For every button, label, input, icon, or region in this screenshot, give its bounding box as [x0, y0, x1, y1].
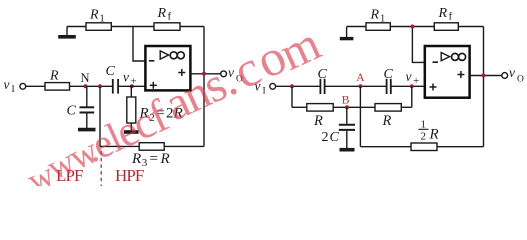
output junction dot (right) [482, 74, 486, 78]
label v+ [123, 70, 137, 88]
svg-text:=: = [150, 151, 158, 167]
svg-text:f: f [449, 11, 453, 23]
svg-text:N: N [81, 71, 90, 85]
resistor half-R [411, 143, 437, 151]
svg-text:R: R [49, 69, 59, 84]
svg-text:+: + [413, 75, 419, 87]
resistor R1 [86, 23, 111, 31]
svg-text:1: 1 [380, 14, 385, 25]
svg-text:I: I [12, 85, 15, 95]
label R1 [89, 8, 105, 25]
ground (top, right circuit) [340, 27, 354, 39]
op-amp U1 plus (output side) [178, 69, 185, 76]
label v+ (right) [406, 69, 420, 87]
label 1/2 R [419, 119, 439, 143]
svg-text:R: R [313, 113, 323, 129]
ground (top left, R1) [58, 27, 76, 37]
label vO (right circuit) [509, 65, 524, 85]
op-amp U2 triangle [441, 53, 449, 61]
capacitor 2C stem upper [346, 107, 348, 124]
junction dot (R1/Rf right) [410, 25, 414, 29]
wire right vertical (feedback column) [203, 27, 205, 147]
svg-text:C: C [330, 130, 340, 145]
label Rf (right) [438, 6, 453, 23]
wire C2 to op-amp [391, 85, 424, 87]
op-amp U2 box [425, 46, 470, 98]
wire R to series C [70, 85, 113, 87]
resistor R1 (right) [366, 23, 390, 31]
wire R1 to Rf [111, 26, 154, 28]
label R2=2R [139, 106, 183, 125]
wire feedback left vertical [99, 86, 101, 146]
svg-text:C: C [384, 67, 394, 82]
svg-text:v: v [406, 69, 412, 84]
svg-text:R: R [370, 8, 380, 23]
node A dot [358, 84, 362, 88]
svg-text:1: 1 [100, 14, 105, 25]
node junction dot (feedback tap) [98, 84, 102, 88]
svg-text:R: R [429, 127, 439, 143]
svg-text:R: R [89, 8, 99, 23]
wire input to R [26, 85, 45, 87]
svg-text:O: O [517, 75, 524, 85]
svg-text:B: B [342, 95, 350, 107]
node B dot [345, 105, 349, 109]
wire op-amp output (right) [470, 75, 502, 77]
resistor R2 (shunt 2R) [127, 97, 136, 123]
resistor Rf [154, 23, 180, 31]
svg-text:C: C [106, 64, 116, 79]
dashed divider LPF/HPF [100, 151, 102, 186]
wire op-amp output [190, 73, 220, 75]
capacitor 2C stem lower [346, 131, 348, 148]
wire series C to op-amp + input [118, 85, 144, 87]
label vI (left input) [4, 77, 15, 95]
wire bottom (feedback) [100, 145, 204, 147]
label vO (left circuit) [228, 65, 243, 85]
svg-text:v: v [509, 65, 515, 80]
node v+ dot (right) [410, 84, 414, 88]
wire C1 to C2 [325, 85, 387, 87]
op-amp U2 plus (output side) [457, 71, 464, 78]
op-amp U2 infinity [452, 53, 466, 60]
wire bottom left segment (right circuit) [360, 146, 411, 148]
capacitor C2 plates [387, 79, 391, 94]
output terminal (left circuit) [221, 71, 227, 77]
wire rail rise to v+ [411, 86, 413, 107]
svg-text:1: 1 [421, 119, 427, 131]
wire right vertical (right circuit) [483, 27, 485, 147]
capacitor C shunt stem lower [86, 114, 88, 129]
wire Rf to right vertical [180, 26, 204, 28]
wire rail right segment [401, 106, 412, 108]
op-amp U1 box [145, 46, 190, 90]
svg-text:R: R [157, 6, 167, 21]
node N junction dot [84, 84, 88, 88]
svg-text:2: 2 [421, 131, 427, 143]
resistor R2 stem lower [130, 123, 132, 130]
output junction dot [202, 72, 206, 76]
op-amp U1 triangle [160, 51, 168, 59]
label 2C [322, 130, 340, 145]
input terminal (left) [20, 83, 26, 89]
capacitor C series plates [113, 79, 118, 94]
label R3=R [131, 151, 170, 169]
label R1 (right) [370, 8, 386, 25]
label Rf [157, 6, 172, 23]
node v+ junction dot [130, 84, 134, 88]
resistor R (rail right) [375, 104, 401, 112]
wire rail drop from input junction [291, 86, 293, 107]
svg-text:v: v [4, 77, 10, 92]
output terminal (right circuit) [502, 73, 508, 79]
wire input to C1 [276, 85, 320, 87]
wire Rf to right vertical (right) [458, 26, 483, 28]
op-amp U2 plus (input side) [430, 84, 437, 91]
wire ground to R1 [67, 26, 86, 28]
ground (under shunt C) [78, 128, 96, 132]
input terminal (right circuit) [270, 83, 276, 89]
svg-text:R: R [160, 151, 170, 167]
op-amp U1 infinity [170, 52, 184, 59]
wire A vertical drop [359, 86, 361, 146]
wire ground to R1 (right) [347, 26, 366, 28]
resistor Rf (right) [434, 23, 458, 31]
resistor R (rail left) [307, 104, 333, 112]
input junction dot (right) [290, 84, 294, 88]
op-amp U1 plus (input side) [150, 82, 157, 89]
ground (under R2) [124, 130, 139, 134]
wire rail left segment [292, 106, 307, 108]
svg-text:A: A [356, 72, 365, 84]
wire inverting input (right) [412, 27, 424, 63]
capacitor C1 plates [320, 79, 324, 94]
wire inverting input [133, 27, 145, 62]
capacitor 2C plates [339, 125, 355, 130]
op-amp U2 minus sign [433, 61, 439, 63]
resistor R2 stem upper [130, 86, 132, 97]
svg-text:C: C [67, 104, 77, 119]
label vI (right input) [255, 79, 266, 97]
svg-text:v: v [123, 70, 129, 85]
resistor R3 [139, 143, 164, 151]
wire rail middle segment [333, 106, 375, 108]
ground (under 2C) [340, 148, 355, 152]
capacitor C shunt plates [80, 107, 95, 112]
svg-text:R: R [438, 6, 448, 21]
wire bottom right segment (right circuit) [437, 146, 484, 148]
capacitor C shunt stem upper [86, 86, 88, 106]
svg-text:f: f [168, 11, 172, 23]
svg-text:2: 2 [322, 130, 329, 145]
resistor R (series input) [45, 83, 70, 91]
op-amp U1 minus sign [149, 60, 155, 62]
svg-text:R: R [382, 113, 392, 129]
wire R1 to Rf (right) [390, 26, 434, 28]
svg-text:HPF: HPF [115, 166, 144, 185]
